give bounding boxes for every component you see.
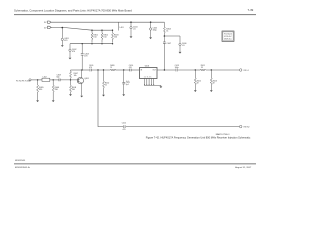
svg-text:C412: C412 bbox=[122, 122, 126, 124]
svg-text:82: 82 bbox=[197, 82, 199, 84]
svg-text:51: 51 bbox=[166, 30, 168, 32]
svg-text:470: 470 bbox=[129, 67, 132, 69]
wire row2 5V rail bbox=[51, 28, 112, 31]
svg-text:470: 470 bbox=[72, 51, 75, 53]
svg-text:430: 430 bbox=[39, 89, 42, 91]
svg-text:RX INJ: RX INJ bbox=[244, 127, 250, 129]
svg-text:100p: 100p bbox=[153, 30, 157, 32]
svg-text:August 31, 2007: August 31, 2007 bbox=[235, 166, 252, 169]
wire row1 9V rail bbox=[51, 21, 164, 23]
U401 pin 3 bbox=[148, 79, 150, 86]
svg-text:5-2: 5-2 bbox=[126, 81, 128, 83]
wire left drop of bottom rail bbox=[69, 44, 71, 49]
wire long drop to injection rail bbox=[98, 70, 239, 127]
svg-text:470: 470 bbox=[89, 67, 92, 69]
capacitor C404 (feedthru) bbox=[130, 27, 132, 29]
capacitor C409 series bbox=[89, 65, 93, 71]
wire bank bottom rail bbox=[70, 43, 113, 45]
node dot bbox=[53, 79, 54, 80]
wire into U401 bbox=[131, 69, 139, 71]
svg-text:82p: 82p bbox=[57, 77, 60, 79]
wire drop to C405 bbox=[150, 22, 152, 28]
resistor R401 bbox=[91, 30, 98, 42]
wire C406 to ground bbox=[179, 46, 181, 52]
node dots R403 bbox=[112, 30, 113, 31]
svg-text:470: 470 bbox=[123, 129, 126, 131]
wire right from node bbox=[164, 36, 180, 43]
svg-text:150: 150 bbox=[103, 37, 106, 39]
ground bbox=[61, 45, 64, 47]
dot on 9V rail at C404 bbox=[130, 21, 132, 23]
wire base rail to collector column bbox=[71, 69, 83, 71]
svg-text:U401: U401 bbox=[145, 66, 150, 68]
svg-text:RX LO: RX LO bbox=[244, 70, 250, 72]
svg-text:4809-3-C: 4809-3-C bbox=[224, 38, 232, 40]
svg-text:Q401: Q401 bbox=[84, 78, 89, 80]
wire drop to C404 bbox=[130, 22, 132, 26]
svg-text:82: 82 bbox=[213, 82, 215, 84]
header page number bbox=[248, 8, 254, 12]
capacitor C413 series bbox=[175, 65, 179, 71]
node dot C drop bbox=[123, 69, 124, 70]
node dot base bbox=[70, 79, 71, 80]
inductor L402 (block) bbox=[42, 77, 50, 82]
wire C401 to ground bbox=[61, 41, 63, 46]
inductor L401 drop from 9V rail bbox=[119, 22, 124, 30]
node junction bottom rail x82 bbox=[82, 43, 83, 44]
ground bbox=[149, 37, 152, 39]
wire pin rail to ground bbox=[145, 85, 161, 86]
svg-text:5V: 5V bbox=[44, 27, 47, 29]
capacitor C405 (feedthru) bbox=[149, 28, 151, 30]
node dot long drop bbox=[97, 69, 98, 70]
node dot collector bbox=[81, 69, 82, 70]
resistor R406 shunt bbox=[52, 80, 59, 102]
svg-text:L401: L401 bbox=[120, 27, 124, 29]
resistor R409 series bbox=[110, 65, 115, 71]
svg-text:12345: 12345 bbox=[144, 77, 152, 79]
ground bbox=[69, 58, 72, 60]
svg-text:Fm Rx FE 73.35M: Fm Rx FE 73.35M bbox=[16, 80, 31, 82]
wire C407 down to output row bbox=[163, 43, 165, 70]
capacitor C407 on drop bbox=[163, 36, 171, 45]
connector J3 RX input bbox=[29, 79, 31, 81]
wire C403 to collector node bbox=[81, 55, 83, 70]
node at 164,36 bbox=[164, 35, 166, 37]
wire to base bbox=[60, 79, 78, 81]
svg-text:9V: 9V bbox=[44, 22, 47, 24]
U401 pin 2 bbox=[146, 79, 148, 86]
capacitor C402 (feedthru) bbox=[69, 49, 71, 51]
connector J5 RX 1st LO bbox=[239, 69, 242, 72]
node dot bbox=[211, 69, 212, 70]
svg-text:7-39: 7-39 bbox=[248, 8, 254, 12]
capacitor C406 (feedthru) bbox=[179, 43, 181, 45]
connector J4 RX INJ bbox=[239, 125, 242, 128]
transistor Q401 bbox=[77, 77, 89, 83]
capacitor C410 series bbox=[129, 65, 133, 71]
wire collector up bbox=[81, 70, 83, 78]
svg-text:C407: C407 bbox=[167, 43, 172, 45]
svg-text:IN: IN bbox=[141, 70, 143, 72]
node junction on 5V rail bbox=[62, 27, 64, 29]
svg-text:3k9: 3k9 bbox=[72, 89, 75, 91]
svg-text:.01: .01 bbox=[133, 28, 136, 30]
wire input row bbox=[31, 79, 42, 81]
IC U401 bbox=[126, 66, 157, 84]
ground bbox=[179, 52, 182, 54]
node dot bbox=[37, 79, 38, 80]
resistor R412 shunt bbox=[194, 70, 201, 92]
wire bbox=[50, 79, 59, 81]
resistor R411 series bbox=[195, 65, 205, 71]
header title text bbox=[14, 9, 132, 13]
node dot R drop bbox=[103, 69, 104, 70]
svg-text:OUT: OUT bbox=[153, 70, 156, 72]
capacitor C412 series on injection rail bbox=[122, 122, 126, 130]
svg-text:51: 51 bbox=[110, 67, 112, 69]
resistor R413 shunt bbox=[210, 70, 217, 92]
wire collector feed drop bbox=[81, 44, 83, 54]
wire output of U401 bbox=[157, 69, 195, 71]
footer rule bbox=[14, 163, 256, 165]
ground emitter bbox=[80, 96, 83, 98]
U401 pin 4 bbox=[150, 79, 152, 86]
wire emitter down bbox=[81, 83, 83, 96]
U401 pin 5 bbox=[153, 79, 155, 86]
ground bbox=[160, 86, 163, 88]
node dots R402 bbox=[101, 30, 102, 31]
capacitor C408 series bbox=[57, 75, 61, 82]
svg-text:Schematics, Component Location: Schematics, Component Location Diagrams,… bbox=[14, 9, 132, 13]
svg-text:L402: L402 bbox=[43, 77, 47, 79]
resistor R408 base bias lower bbox=[69, 80, 76, 96]
svg-text:100p: 100p bbox=[175, 67, 179, 69]
resistor R402 bbox=[101, 30, 108, 42]
svg-text:18: 18 bbox=[201, 67, 203, 69]
resistor R404 at end of 9V rail bbox=[163, 22, 170, 36]
svg-text:51: 51 bbox=[105, 85, 107, 87]
svg-text:470: 470 bbox=[84, 56, 87, 58]
node dots R401 bbox=[91, 30, 92, 31]
svg-text:10k: 10k bbox=[74, 75, 77, 77]
node dot bbox=[164, 69, 165, 70]
connector J2 (5V feed) bbox=[48, 26, 52, 28]
svg-text:.01: .01 bbox=[182, 45, 185, 47]
svg-text:6816532H01-A: 6816532H01-A bbox=[15, 166, 30, 169]
wire C405 to ground bbox=[150, 30, 152, 37]
capacitor C411 shunt bbox=[122, 70, 130, 96]
wire C402 to ground bbox=[69, 51, 71, 57]
resistor R407 base bias upper bbox=[70, 70, 78, 80]
svg-text:430: 430 bbox=[55, 89, 58, 91]
wire to output connector bbox=[206, 69, 240, 71]
svg-text:Figure 7-42. HUF4017A Frequenc: Figure 7-42. HUF4017A Frequency Generati… bbox=[146, 135, 251, 139]
wire drop to C401 bbox=[61, 28, 63, 39]
dot on 9V rail at C405 bbox=[150, 21, 152, 23]
node dot bbox=[195, 69, 196, 70]
svg-text:470: 470 bbox=[64, 40, 67, 42]
resistor R410 shunt bbox=[102, 70, 109, 97]
wire bbox=[91, 69, 110, 71]
wire C404 to ground bbox=[130, 29, 132, 37]
U401 pin 1 bbox=[144, 79, 146, 86]
resistor R403 bbox=[112, 30, 119, 42]
wire bbox=[115, 69, 129, 71]
connector J1 (9V feed) bbox=[48, 21, 52, 23]
svg-text:6816532H01: 6816532H01 bbox=[15, 160, 25, 162]
capacitor C403 bbox=[81, 54, 89, 58]
note box bbox=[222, 31, 234, 41]
header rule bbox=[14, 14, 256, 16]
wire output row left bbox=[82, 69, 89, 71]
svg-text:9p1: 9p1 bbox=[126, 84, 129, 86]
resistor R405 shunt bbox=[36, 80, 43, 102]
svg-text:150: 150 bbox=[93, 37, 96, 39]
svg-text:150: 150 bbox=[114, 37, 117, 39]
capacitor C401 (feedthru) bbox=[61, 38, 63, 40]
ground bbox=[130, 36, 133, 38]
